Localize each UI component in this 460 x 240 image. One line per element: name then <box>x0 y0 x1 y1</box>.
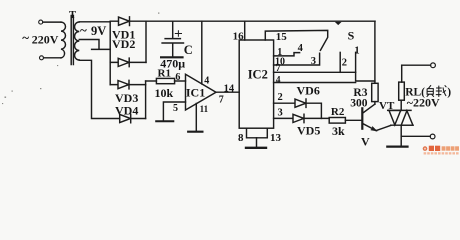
diode VD1 <box>110 17 129 26</box>
svg-text:10k: 10k <box>155 86 174 100</box>
IC2 bottom bracket pins 8 13 <box>247 128 268 138</box>
diode VD5 <box>274 114 330 122</box>
resistor R1 <box>146 80 157 82</box>
svg-text:VD4: VD4 <box>115 103 138 117</box>
wire IC2 pin15 to switch wiper <box>265 30 327 50</box>
svg-text:5: 5 <box>173 103 178 114</box>
svg-text:300: 300 <box>350 98 368 110</box>
svg-text:1: 1 <box>354 46 359 57</box>
node bus vertical <box>109 22 111 85</box>
svg-text:8: 8 <box>238 132 244 144</box>
svg-text:220V: 220V <box>32 32 59 46</box>
capacitor C <box>162 21 183 56</box>
wire IC1 output to IC2 pin14 <box>216 91 239 93</box>
svg-text:R1: R1 <box>158 68 171 80</box>
svg-text:11: 11 <box>200 104 209 114</box>
svg-text:IC2: IC2 <box>248 68 268 82</box>
terminal right top <box>431 63 436 68</box>
wire <box>43 21 61 23</box>
transistor V <box>361 108 363 128</box>
switch contact 2 vertical <box>339 52 341 72</box>
svg-text:~: ~ <box>80 23 87 38</box>
transformer T secondary winding <box>75 22 80 60</box>
svg-text:16: 16 <box>233 30 245 42</box>
resistor R2 <box>329 118 345 124</box>
wire <box>44 57 61 59</box>
switch contact 1 vertical <box>356 52 375 81</box>
ground pin11 <box>188 131 202 133</box>
svg-text:9V: 9V <box>91 24 106 38</box>
ground pin5 <box>156 120 173 122</box>
svg-text:IC1: IC1 <box>186 85 205 99</box>
wire RL top <box>402 64 431 66</box>
svg-text:VD5: VD5 <box>297 124 320 138</box>
speck <box>5 97 7 98</box>
svg-text:3: 3 <box>311 56 316 67</box>
resistor R3 <box>372 83 378 101</box>
wire IC2 pin16 to rail <box>244 21 246 40</box>
terminal right bottom <box>430 134 435 139</box>
svg-text:7: 7 <box>276 64 281 74</box>
wire rail corner down to R3 <box>374 21 376 83</box>
wire IC2 pin4 to R3 <box>274 82 356 84</box>
end bar bottom <box>387 146 407 148</box>
svg-text:6: 6 <box>175 72 180 83</box>
svg-text:S: S <box>348 28 355 42</box>
wire to bottom terminal <box>401 135 430 137</box>
svg-text:3: 3 <box>278 107 283 118</box>
svg-text:C: C <box>184 43 193 57</box>
wire top rail <box>130 20 376 22</box>
resistor RL <box>401 65 403 82</box>
diode VD4 <box>120 114 146 123</box>
terminal bottom-left <box>40 56 44 60</box>
svg-text:): ) <box>447 86 451 98</box>
triac VT <box>388 109 411 111</box>
wire IC2 pin1 to contact 4 <box>274 53 300 56</box>
svg-text:V: V <box>361 135 370 149</box>
svg-text:2: 2 <box>278 92 283 103</box>
diode VD2 <box>110 58 146 67</box>
svg-text:VD2: VD2 <box>112 37 135 51</box>
svg-text:4: 4 <box>298 43 304 54</box>
wire secondary bottom lead <box>79 60 119 118</box>
transformer core <box>71 16 73 65</box>
svg-text:R2: R2 <box>331 106 345 118</box>
svg-text:15: 15 <box>276 31 288 43</box>
svg-text:T: T <box>69 10 76 21</box>
watermark logo <box>423 146 459 155</box>
junction blob on rail <box>335 22 342 25</box>
wire IC1 pin4 to rail <box>201 21 203 84</box>
svg-text:13: 13 <box>270 132 282 144</box>
wire IC2 pin7 <box>274 71 356 73</box>
svg-text:4: 4 <box>276 75 281 85</box>
svg-text:3k: 3k <box>332 124 345 138</box>
wire IC2 pin10 to contact 3 <box>274 53 320 65</box>
svg-text:VD6: VD6 <box>297 83 320 97</box>
svg-text:~220V: ~220V <box>407 96 440 110</box>
ground IC2 <box>256 138 258 147</box>
wire secondary tap <box>79 40 110 50</box>
plus sign of C <box>175 31 181 37</box>
svg-text:7: 7 <box>219 95 224 106</box>
wire V emitter to triac gate <box>376 125 391 130</box>
diode VD6 <box>274 99 322 118</box>
op-amp IC1 <box>186 74 217 110</box>
wire VD1-VD2 junction vertical <box>145 21 147 62</box>
svg-text:VT: VT <box>379 100 395 112</box>
IC2 box <box>239 40 273 128</box>
svg-text:~: ~ <box>22 30 29 45</box>
transformer T primary winding <box>61 22 66 58</box>
svg-text:14: 14 <box>224 84 235 95</box>
wire triac bottom <box>400 125 402 146</box>
terminal top-left <box>39 20 43 24</box>
diode VD3 <box>110 80 145 89</box>
wire IC1 pin11 <box>195 104 197 131</box>
wire VD3-VD4 junction vertical <box>145 81 147 119</box>
svg-text:2: 2 <box>342 58 347 69</box>
wire IC1 pin5 <box>163 102 185 120</box>
wire secondary top lead <box>79 21 110 23</box>
